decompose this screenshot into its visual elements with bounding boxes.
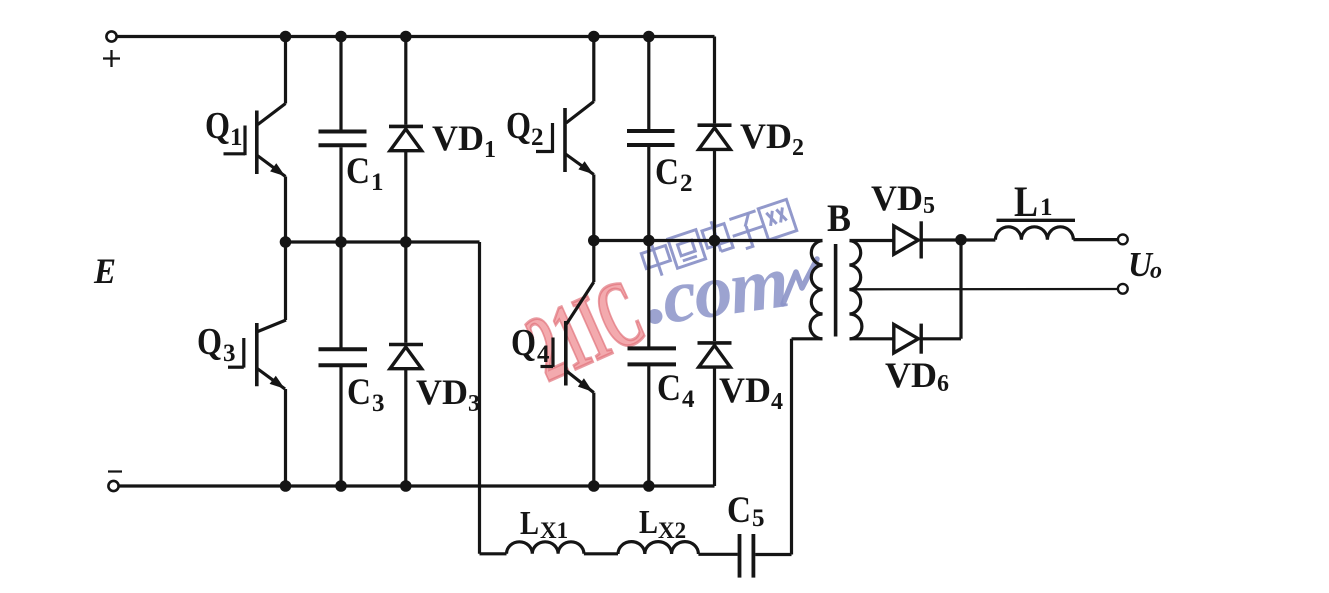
transformer B core — [834, 244, 838, 337]
watermark chinese characters — [639, 196, 798, 280]
svg-text:L: L — [520, 505, 539, 542]
wire bridge output drop — [478, 242, 481, 554]
label C4 — [657, 368, 695, 413]
diode VD3 — [389, 242, 423, 486]
svg-text:3: 3 — [372, 390, 385, 417]
svg-text:C: C — [347, 372, 371, 413]
junction right midpoint / Q2 emitter — [588, 235, 600, 247]
svg-text:VD: VD — [432, 118, 484, 158]
junction top rail / C1 — [335, 31, 347, 43]
junction bottom rail / C3 — [335, 480, 347, 492]
capacitor C1 — [319, 37, 367, 243]
svg-text:2: 2 — [792, 135, 804, 161]
svg-text:VD: VD — [719, 370, 771, 410]
junction bottom rail / Q4 emitter — [588, 480, 600, 492]
svg-text:L: L — [639, 504, 658, 541]
junction top rail / Q2 collector — [588, 31, 600, 43]
label E — [93, 251, 116, 291]
wire secondary bottom — [850, 337, 893, 340]
terminal input positive — [106, 31, 116, 41]
label VD1 — [432, 118, 496, 163]
wire secondary top — [850, 239, 893, 242]
wire riser to transformer primary — [790, 339, 793, 555]
svg-text:L: L — [1014, 179, 1038, 226]
junction right midpoint / VD2 — [709, 235, 721, 247]
label VD2 — [740, 116, 804, 161]
svg-text:Q: Q — [205, 105, 230, 147]
junction left midpoint / VD1 — [400, 236, 412, 248]
label C5 — [727, 490, 765, 532]
svg-text:6: 6 — [937, 371, 949, 397]
diode VD6 — [894, 324, 961, 354]
wire VD6 riser — [959, 240, 962, 339]
junction bottom rail / Q3 emitter — [280, 480, 292, 492]
svg-text:o: o — [1150, 258, 1162, 284]
label Q3 — [197, 321, 236, 367]
svg-text:5: 5 — [752, 505, 765, 532]
L1 overline bar — [997, 219, 1076, 222]
svg-text:C: C — [346, 151, 370, 192]
transistor Q1 — [224, 37, 286, 243]
wire right midpoint rail — [594, 239, 823, 242]
wire left midpoint rail — [286, 240, 480, 243]
svg-text:com: com — [657, 239, 792, 340]
wire C5 to riser — [755, 553, 791, 556]
label Q2 — [506, 105, 544, 151]
capacitor C2 — [627, 37, 675, 241]
capacitor C5 — [740, 534, 754, 578]
junction left midpoint / C1 — [335, 236, 347, 248]
plus sign — [103, 50, 120, 67]
svg-text:1: 1 — [371, 169, 384, 196]
diode VD5 — [894, 221, 956, 258]
label B — [827, 197, 851, 240]
label C1 — [346, 151, 384, 196]
label VD5 — [871, 178, 935, 219]
label Q4 — [511, 322, 550, 368]
node rectifier output — [955, 234, 967, 246]
transformer B primary winding — [810, 241, 822, 339]
junction top rail / C2 — [643, 31, 655, 43]
wire top rail — [117, 35, 715, 38]
wire LX2 to C5 — [698, 553, 737, 556]
label C2 — [655, 152, 693, 197]
wire bottom rail — [119, 484, 715, 487]
junction top rail / Q1 collector — [280, 31, 292, 43]
diode VD2 — [698, 37, 732, 241]
svg-text:VD: VD — [416, 372, 468, 412]
label LX2 — [639, 504, 686, 543]
terminal input negative — [108, 481, 118, 491]
svg-text:4: 4 — [682, 386, 695, 413]
svg-text:VD: VD — [871, 178, 923, 218]
svg-text:2: 2 — [531, 124, 544, 151]
junction bottom rail / C4 — [643, 480, 655, 492]
svg-text:4: 4 — [537, 341, 550, 368]
label LX1 — [520, 505, 568, 543]
transistor Q3 — [228, 242, 286, 486]
label L1 — [1014, 179, 1053, 226]
transformer B secondary winding — [850, 241, 862, 339]
label C3 — [347, 372, 385, 417]
diode VD4 — [698, 241, 732, 487]
inductor L1 — [995, 227, 1073, 240]
label VD3 — [416, 372, 480, 417]
svg-text:5: 5 — [923, 193, 935, 219]
svg-text:4: 4 — [771, 389, 783, 415]
wire node to L1 — [961, 238, 995, 241]
svg-text:C: C — [655, 152, 679, 193]
capacitor C3 — [319, 242, 368, 486]
label VD4 — [719, 370, 783, 415]
svg-text:Q: Q — [197, 321, 222, 363]
svg-text:3: 3 — [223, 340, 236, 367]
label Uo — [1128, 245, 1162, 284]
svg-text:2: 2 — [680, 170, 693, 197]
junction right midpoint / C2 — [643, 235, 655, 247]
minus sign — [108, 470, 122, 472]
svg-text:1: 1 — [230, 124, 243, 151]
junction top rail / VD1 — [400, 31, 412, 43]
capacitor C4 — [628, 241, 677, 487]
label VD6 — [885, 355, 949, 397]
diode VD1 — [389, 37, 423, 243]
svg-text:E: E — [93, 251, 116, 291]
svg-text:1: 1 — [1040, 194, 1053, 221]
wire L1 to terminal — [1073, 238, 1117, 241]
svg-text:Q: Q — [511, 322, 536, 364]
junction left midpoint / Q1 emitter — [280, 236, 292, 248]
watermark .com script — [639, 239, 792, 342]
svg-text:VD: VD — [740, 116, 792, 156]
wire to LX1 — [480, 552, 507, 555]
wire primary bottom — [792, 337, 823, 340]
svg-text:C: C — [657, 368, 681, 409]
terminal output upper — [1118, 235, 1128, 245]
inductor LX2 — [618, 542, 698, 554]
wire output lower — [850, 288, 1118, 291]
watermark 21IC red — [512, 259, 658, 402]
svg-text:B: B — [827, 197, 851, 240]
svg-text:VD: VD — [885, 355, 937, 395]
svg-text:Q: Q — [506, 105, 531, 147]
svg-text:1: 1 — [484, 137, 496, 163]
label Q1 — [205, 105, 243, 151]
inductor LX1 — [507, 542, 584, 554]
watermark m tail flourish — [783, 259, 817, 304]
transistor Q2 — [536, 37, 594, 241]
wire LX1 to LX2 — [584, 552, 618, 555]
transistor Q4 — [541, 241, 594, 487]
svg-text:X2: X2 — [658, 518, 686, 543]
junction bottom rail / VD3 — [400, 480, 412, 492]
svg-text:C: C — [727, 490, 751, 531]
svg-text:X1: X1 — [540, 518, 568, 543]
terminal output lower — [1118, 284, 1128, 294]
